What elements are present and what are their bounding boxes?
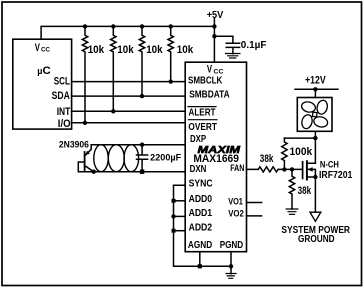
junction INT/R3 [111, 109, 115, 113]
transistor Q1 2N3906 base bar [84, 152, 86, 172]
twisted pair loop 1 [94, 145, 108, 172]
svg-text:SDA: SDA [52, 90, 70, 102]
junction Q2 source [313, 175, 317, 179]
svg-text:ADD1: ADD1 [189, 208, 213, 219]
ground under PGND [226, 274, 236, 279]
wire DXP net [91, 144, 185, 146]
Q1 collector lead [85, 166, 94, 172]
wire ADD1 stub [174, 215, 186, 217]
svg-text:DXN: DXN [190, 164, 207, 175]
resistor R7 38k pulldown [289, 169, 294, 209]
svg-text:FAN: FAN [230, 163, 244, 173]
svg-text:ADD0: ADD0 [189, 194, 213, 205]
svg-text:+12V: +12V [305, 74, 326, 86]
junction SDA/R2 [140, 94, 144, 98]
wire INT [72, 110, 186, 112]
system power ground triangle [310, 212, 321, 221]
capacitor C1 0.1uF [226, 43, 239, 53]
svg-text:ADD2: ADD2 [189, 223, 213, 234]
wire PGND pin [230, 252, 232, 274]
wire FAN pin to gate [247, 168, 303, 170]
junction I/O/R4 [83, 121, 87, 125]
wire to capacitor C1 [214, 36, 233, 43]
junction AGND [198, 264, 202, 268]
junction DXN node [140, 170, 144, 174]
junction ADD1 [171, 214, 175, 218]
resistor R5 38k horizontal [258, 167, 278, 172]
MAX1669 IC U2 box [185, 62, 246, 252]
wire fan to drain node [307, 131, 316, 163]
MOSFET Q2 channel bar [306, 161, 308, 179]
ground under C1 [226, 54, 240, 59]
junction rail x113 [111, 24, 115, 28]
svg-text:V: V [35, 42, 41, 54]
svg-text:2200µF: 2200µF [150, 152, 181, 162]
resistor R1 10k [168, 26, 173, 81]
MOSFET Q2 gate bar [302, 162, 304, 179]
wire AGND pin [199, 252, 201, 267]
svg-text:IRF7201: IRF7201 [319, 170, 353, 181]
wire ADD0 stub [174, 200, 186, 202]
svg-text:10k: 10k [146, 44, 163, 56]
ground under R7 [286, 209, 298, 214]
junction PGND [229, 264, 233, 268]
resistor R6 100k [282, 138, 287, 169]
junction fan bottom [313, 136, 317, 140]
svg-text:AGND: AGND [188, 240, 212, 251]
junction cap branch [212, 34, 216, 38]
svg-text:GROUND: GROUND [298, 234, 335, 245]
junction SCL/R1 [169, 79, 173, 83]
svg-text:100k: 100k [290, 146, 314, 158]
svg-text:VO1: VO1 [228, 196, 243, 206]
wire I/O [72, 122, 186, 124]
ALERT pin overline [188, 106, 216, 108]
junction rail x171 [169, 24, 173, 28]
capacitor C2 2200uF [137, 145, 148, 172]
svg-text:DXP: DXP [190, 134, 206, 145]
svg-text:PGND: PGND [220, 240, 244, 251]
Q1 base loop wire [78, 162, 93, 172]
junction +5V [212, 24, 216, 28]
OVERT pin overline [188, 119, 217, 121]
svg-text:SCL: SCL [54, 76, 70, 88]
svg-text:10k: 10k [88, 44, 105, 56]
junction +12V rail [313, 87, 317, 91]
svg-text:0.1µF: 0.1µF [241, 40, 267, 51]
svg-text:10k: 10k [117, 44, 134, 56]
svg-text:+5V: +5V [207, 10, 224, 21]
svg-text:V: V [207, 63, 213, 75]
svg-text:SYNC: SYNC [189, 179, 213, 190]
resistor R2 10k [139, 26, 144, 96]
Q2 body tap [307, 169, 316, 212]
junction FAN/100k [282, 167, 286, 171]
svg-text:2N3906: 2N3906 [59, 139, 89, 149]
wire SYNC/ADD chain [174, 185, 232, 266]
junction rail x85 [83, 24, 87, 28]
junction ADD0 [172, 199, 176, 203]
wire +5V supply drop [213, 19, 215, 63]
svg-text:38k: 38k [298, 185, 312, 197]
svg-text:38k: 38k [260, 153, 274, 165]
svg-text:CC: CC [214, 69, 224, 76]
svg-text:OVERT: OVERT [188, 122, 217, 133]
wire fan node to 100k [284, 137, 315, 139]
Q1 emitter lead [85, 145, 92, 156]
wire DXN net [94, 171, 186, 173]
junction ADD2 [172, 229, 176, 233]
svg-text:ALERT: ALERT [189, 108, 216, 119]
fan box [297, 98, 332, 132]
junction FAN/38k [290, 167, 294, 171]
svg-text:SMBDATA: SMBDATA [189, 90, 229, 101]
resistor R3 10k [111, 26, 116, 111]
junction Q1 collector-base [92, 170, 96, 174]
+12V rail [295, 88, 338, 90]
svg-text:µC: µC [37, 65, 50, 77]
fan blades [300, 99, 328, 130]
Q2 body arrow [308, 167, 313, 172]
svg-text:VO2: VO2 [228, 209, 244, 219]
wire µC VCC to +5V rail [41, 26, 214, 39]
junction rail x142 [140, 24, 144, 28]
junction DXP node [140, 143, 144, 147]
wire ADD2 stub [174, 230, 186, 232]
wire VO2 stub [247, 215, 262, 217]
resistor R4 10k [82, 26, 87, 122]
wire SDA [72, 95, 186, 97]
twisted pair loop 2 [108, 145, 124, 172]
microcontroller U1 box [13, 39, 72, 129]
wire +12V to fan [314, 89, 316, 97]
wire VO1 stub [247, 202, 262, 204]
twisted pair loop 3 [124, 145, 139, 172]
wire SCL [72, 81, 186, 83]
svg-text:I/O: I/O [58, 118, 71, 130]
Q2 source tap [307, 176, 316, 178]
svg-text:SMBCLK: SMBCLK [188, 76, 223, 87]
svg-text:10k: 10k [177, 44, 194, 56]
Q1 emitter arrow [85, 151, 90, 156]
svg-text:INT: INT [57, 106, 71, 118]
svg-text:CC: CC [41, 47, 50, 54]
